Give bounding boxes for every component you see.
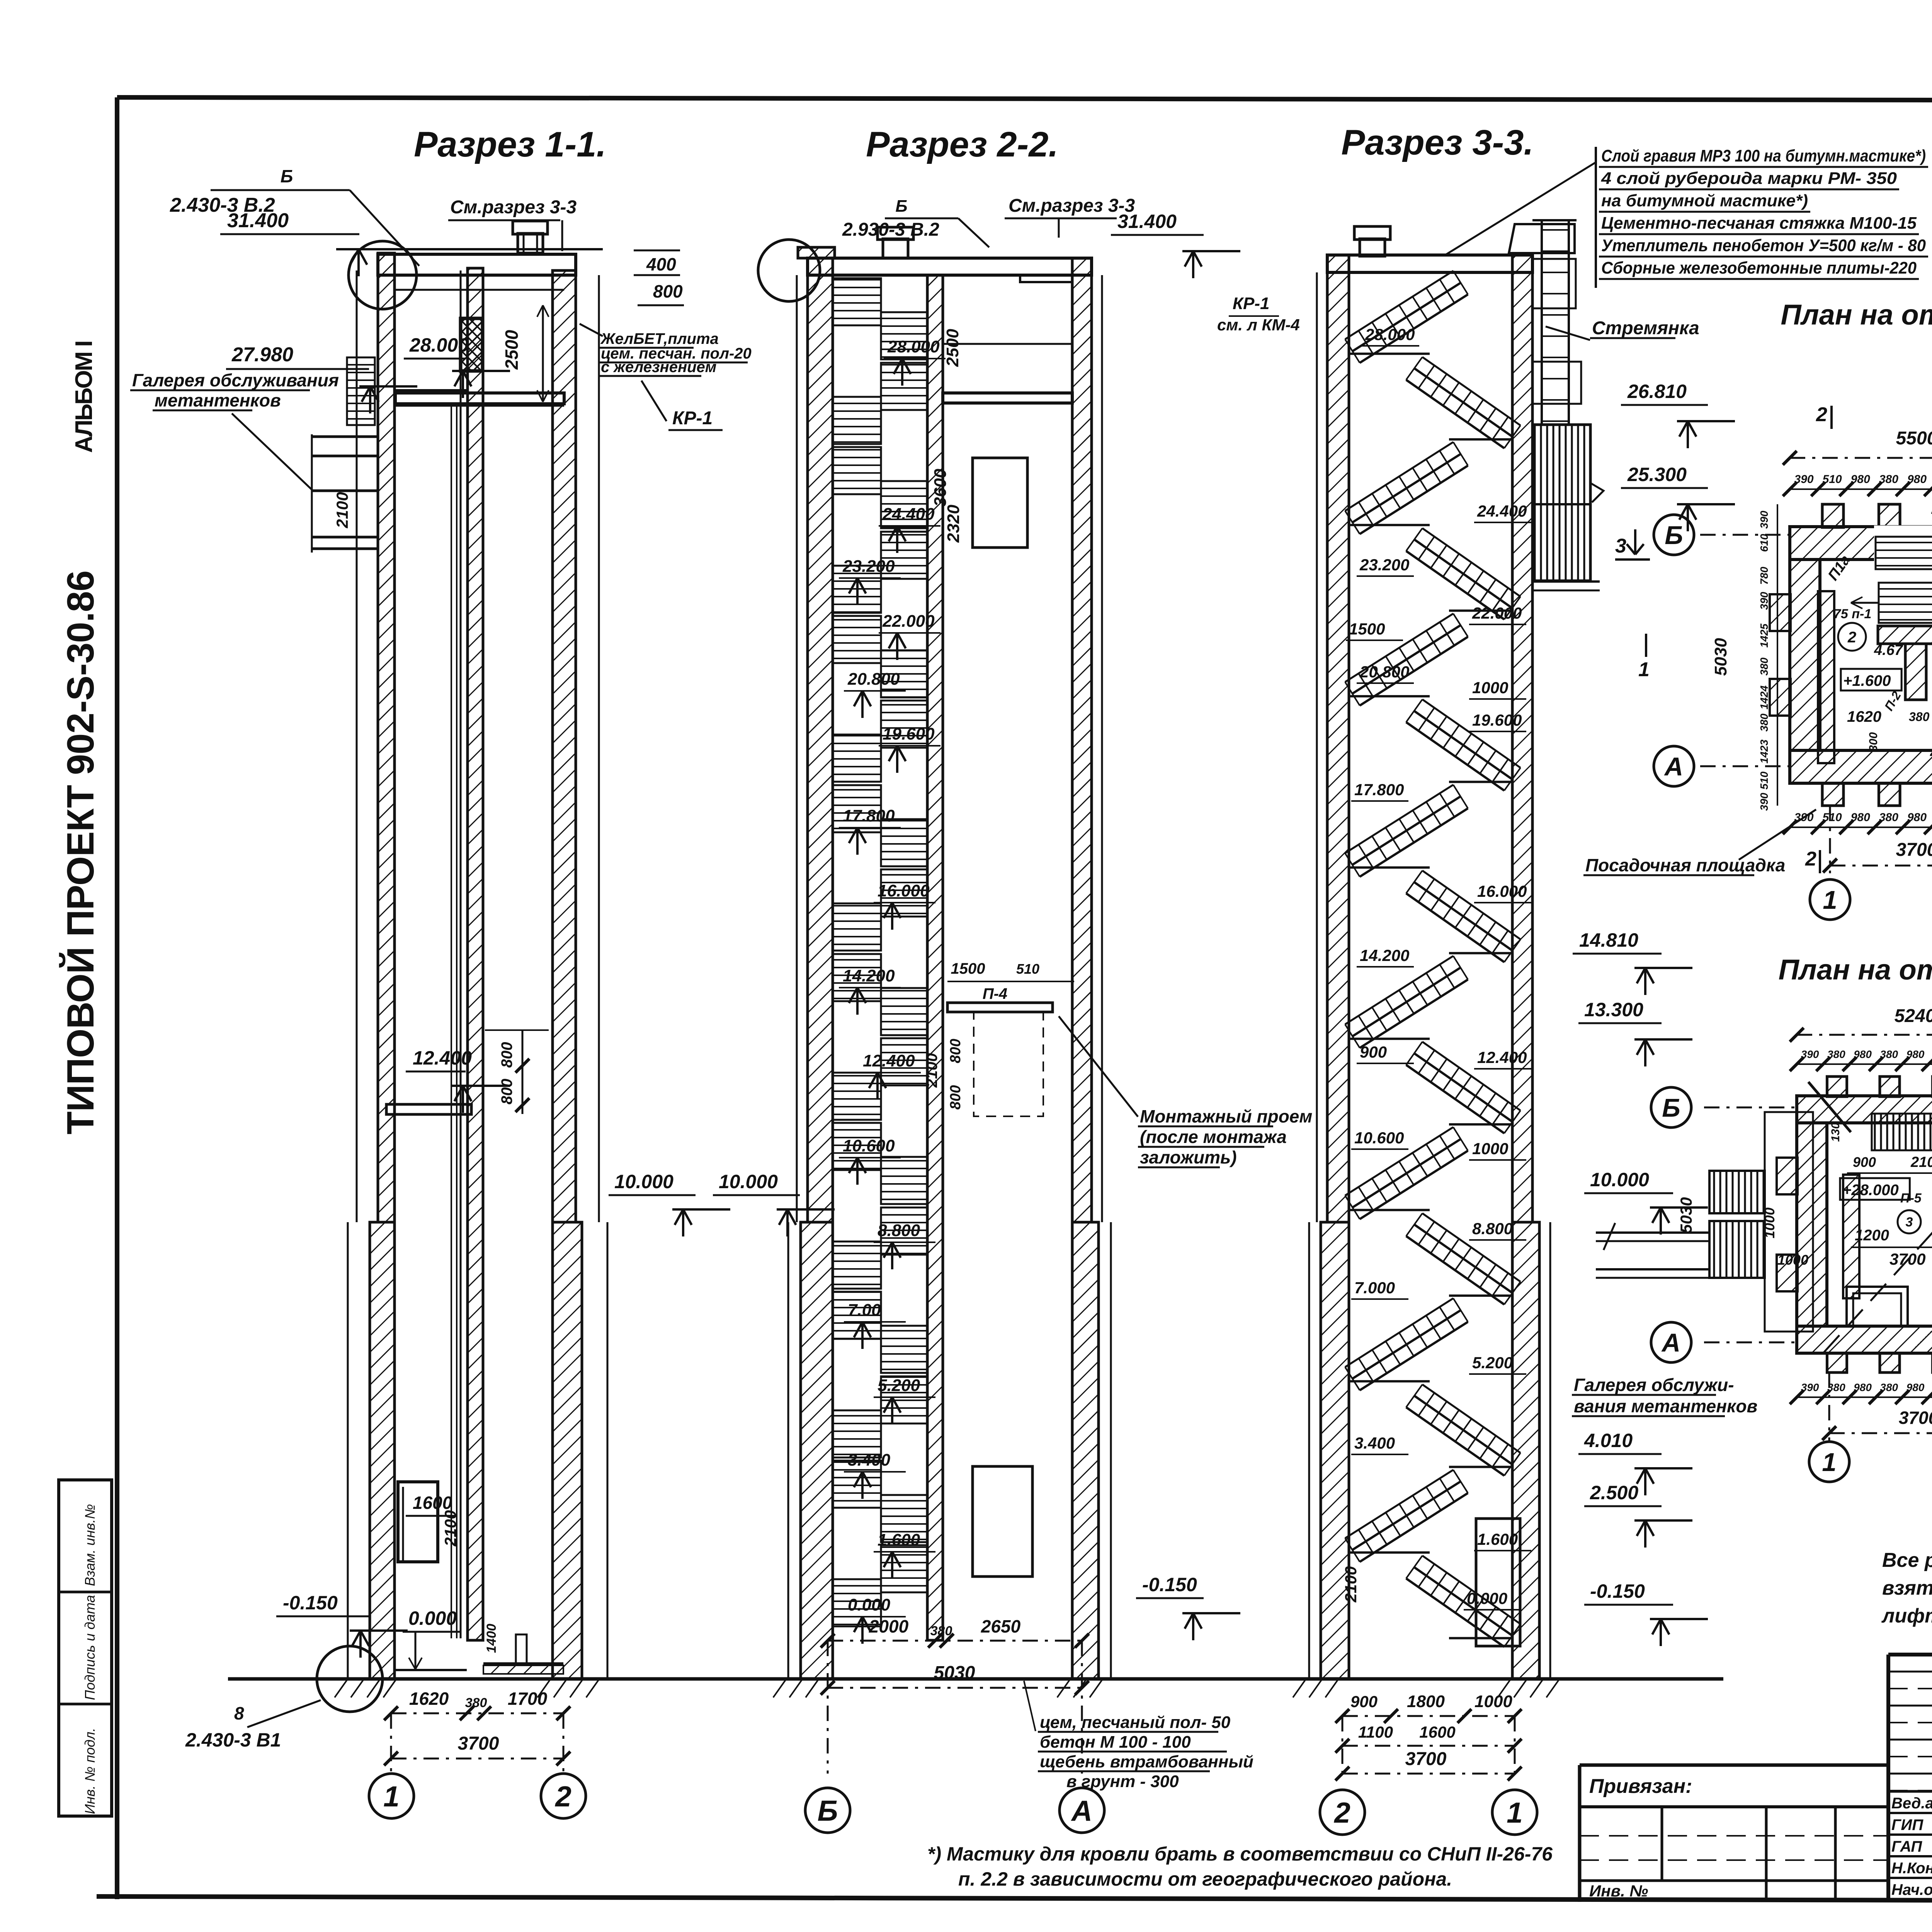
- svg-text:2100: 2100: [1342, 1566, 1360, 1602]
- svg-text:ГИП: ГИП: [1891, 1816, 1923, 1833]
- svg-text:-0.150: -0.150: [283, 1592, 338, 1614]
- svg-text:А: А: [1661, 1328, 1680, 1357]
- svg-text:-0.150: -0.150: [1590, 1580, 1645, 1602]
- svg-text:0.000: 0.000: [848, 1595, 891, 1614]
- svg-text:4 слой рубероида марки РМ- 350: 4 слой рубероида марки РМ- 350: [1601, 169, 1897, 188]
- svg-text:2650: 2650: [981, 1616, 1021, 1636]
- svg-text:см. л КМ-4: см. л КМ-4: [1217, 316, 1300, 334]
- svg-text:Б: Б: [281, 166, 293, 186]
- svg-text:20.800: 20.800: [847, 670, 900, 689]
- svg-text:3700: 3700: [1896, 840, 1932, 860]
- svg-text:8.800: 8.800: [1472, 1219, 1513, 1238]
- svg-text:3.400: 3.400: [848, 1451, 891, 1469]
- svg-text:1500: 1500: [1349, 620, 1385, 638]
- svg-text:1500: 1500: [951, 960, 985, 977]
- svg-text:5030: 5030: [1677, 1197, 1695, 1233]
- svg-text:5.200: 5.200: [1472, 1354, 1513, 1372]
- svg-text:800: 800: [653, 281, 683, 301]
- svg-text:1000: 1000: [1472, 679, 1508, 697]
- svg-text:16.000: 16.000: [1477, 882, 1527, 900]
- svg-text:23.200: 23.200: [1359, 556, 1409, 574]
- svg-text:щебень втрамбованный: щебень втрамбованный: [1040, 1752, 1253, 1771]
- svg-text:10.600: 10.600: [1354, 1129, 1404, 1147]
- svg-text:19.600: 19.600: [1472, 711, 1522, 729]
- svg-text:4.67: 4.67: [1874, 642, 1903, 658]
- svg-text:Утеплитель пенобетон У=500 кг/: Утеплитель пенобетон У=500 кг/м - 80: [1601, 236, 1926, 255]
- svg-text:Б: Б: [1665, 521, 1683, 550]
- svg-text:АЛЬБОМ I: АЛЬБОМ I: [71, 342, 97, 453]
- svg-text:в грунт - 300: в грунт - 300: [1066, 1772, 1179, 1791]
- svg-text:75 п-1: 75 п-1: [1833, 607, 1871, 621]
- svg-text:7.00: 7.00: [848, 1301, 881, 1320]
- svg-text:взяты по альбому заданий на пр: взяты по альбому заданий на проектирован…: [1882, 1577, 1932, 1599]
- svg-text:1000: 1000: [1475, 1692, 1512, 1711]
- svg-text:заложить): заложить): [1140, 1147, 1237, 1167]
- svg-text:10.000: 10.000: [719, 1171, 778, 1192]
- svg-text:380: 380: [1909, 710, 1930, 724]
- svg-text:5.200: 5.200: [878, 1376, 920, 1395]
- svg-text:22.000: 22.000: [1472, 604, 1522, 622]
- svg-text:2: 2: [554, 1780, 571, 1813]
- svg-text:А: А: [1664, 752, 1683, 781]
- svg-text:2.500: 2.500: [1590, 1482, 1638, 1503]
- svg-text:1800: 1800: [1407, 1692, 1445, 1711]
- svg-text:31.400: 31.400: [1117, 211, 1177, 232]
- svg-text:1600: 1600: [1419, 1723, 1455, 1741]
- svg-text:390: 390: [1758, 592, 1770, 610]
- svg-text:2100: 2100: [1910, 1154, 1932, 1170]
- svg-text:510: 510: [1016, 961, 1039, 977]
- svg-text:24.400: 24.400: [882, 505, 935, 524]
- svg-text:2100: 2100: [923, 1053, 940, 1088]
- svg-text:Б: Б: [895, 197, 907, 216]
- svg-text:20.800: 20.800: [1359, 663, 1409, 681]
- svg-text:2: 2: [1816, 403, 1827, 426]
- svg-text:2500: 2500: [502, 330, 522, 370]
- svg-text:Подпись и дата: Подпись и дата: [82, 1595, 98, 1700]
- svg-text:Сборные железобетонные плиты-2: Сборные железобетонные плиты-220: [1601, 259, 1917, 277]
- svg-text:Разрез 1-1.: Разрез 1-1.: [414, 125, 606, 164]
- svg-text:2: 2: [1805, 848, 1816, 870]
- svg-text:2000: 2000: [1930, 552, 1932, 585]
- svg-text:1425: 1425: [1758, 623, 1770, 648]
- svg-text:на битумной мастике*): на битумной мастике*): [1601, 191, 1808, 210]
- svg-text:2100: 2100: [441, 1510, 459, 1546]
- svg-text:Стремянка: Стремянка: [1592, 318, 1699, 338]
- svg-text:10.000: 10.000: [614, 1171, 673, 1192]
- svg-text:1100: 1100: [1358, 1723, 1393, 1741]
- svg-text:с железнением: с железнением: [601, 359, 716, 376]
- svg-text:2320: 2320: [944, 505, 963, 543]
- svg-text:800: 800: [498, 1042, 515, 1068]
- svg-text:800: 800: [498, 1079, 515, 1105]
- svg-text:Вед.арх.: Вед.арх.: [1891, 1795, 1932, 1812]
- svg-text:1: 1: [1638, 658, 1650, 681]
- svg-text:Монтажный проем: Монтажный проем: [1140, 1106, 1312, 1126]
- svg-text:8: 8: [234, 1703, 244, 1723]
- svg-text:2: 2: [1333, 1796, 1350, 1829]
- svg-text:3: 3: [1615, 535, 1626, 557]
- svg-text:380: 380: [1758, 713, 1770, 731]
- svg-text:380: 380: [465, 1696, 487, 1710]
- svg-text:Нач.отд.: Нач.отд.: [1891, 1881, 1932, 1898]
- svg-text:2.930-3 В.2: 2.930-3 В.2: [842, 219, 939, 240]
- svg-text:10.600: 10.600: [843, 1136, 895, 1155]
- svg-text:1000: 1000: [1762, 1207, 1777, 1238]
- svg-text:(после монтажа: (после монтажа: [1140, 1127, 1287, 1147]
- svg-text:510: 510: [1758, 771, 1770, 789]
- svg-text:3700: 3700: [1899, 1408, 1932, 1428]
- svg-text:0.000: 0.000: [1467, 1589, 1507, 1607]
- svg-text:28.000: 28.000: [1365, 325, 1415, 344]
- svg-text:10.000: 10.000: [1590, 1169, 1649, 1190]
- svg-text:Все размеры и габариты шахты л: Все размеры и габариты шахты лифта и маш…: [1882, 1549, 1932, 1571]
- svg-text:*) Мастику для кровли брать в: *) Мастику для кровли брать в соответств…: [927, 1843, 1553, 1865]
- svg-text:2: 2: [1847, 629, 1856, 646]
- svg-text:13.300: 13.300: [1584, 999, 1643, 1020]
- svg-text:19.600: 19.600: [883, 724, 935, 743]
- svg-text:п. 2.2 в зависимости от геогра: п. 2.2 в зависимости от географического …: [958, 1868, 1452, 1890]
- svg-text:5240: 5240: [1895, 1006, 1932, 1026]
- svg-text:28.000: 28.000: [409, 334, 469, 356]
- svg-text:390: 390: [1758, 793, 1770, 811]
- svg-text:-0.150: -0.150: [1142, 1574, 1197, 1595]
- svg-text:Разрез 3-3.: Разрез 3-3.: [1341, 123, 1534, 162]
- svg-text:1.600: 1.600: [1477, 1530, 1518, 1548]
- svg-text:14.810: 14.810: [1579, 929, 1638, 951]
- svg-text:610: 610: [1758, 534, 1770, 552]
- svg-text:1000: 1000: [1472, 1139, 1508, 1158]
- svg-text:1600: 1600: [413, 1493, 452, 1513]
- svg-text:Галерея обслужи-: Галерея обслужи-: [1574, 1375, 1734, 1395]
- svg-text:1423: 1423: [1758, 739, 1770, 764]
- svg-text:Б: Б: [1662, 1094, 1680, 1122]
- svg-text:3700: 3700: [458, 1733, 499, 1754]
- svg-text:390: 390: [1758, 510, 1770, 529]
- svg-text:1.600: 1.600: [878, 1531, 920, 1549]
- svg-text:П-4: П-4: [983, 985, 1007, 1002]
- svg-text:24.400: 24.400: [1477, 502, 1527, 520]
- svg-text:лифтовых установок АТ– 6.00–: лифтовых установок АТ– 6.00– 001 . Разде…: [1881, 1605, 1932, 1627]
- svg-text:См.разрез 3-3: См.разрез 3-3: [1009, 196, 1135, 216]
- svg-text:Слой гравия МР3 100 на битумн.: Слой гравия МР3 100 на битумн.мастике*): [1601, 146, 1926, 165]
- svg-text:Посадочная площадка: Посадочная площадка: [1585, 855, 1785, 875]
- svg-text:1700: 1700: [508, 1689, 548, 1709]
- svg-text:1: 1: [1823, 886, 1837, 915]
- svg-text:25.300: 25.300: [1627, 464, 1687, 485]
- svg-text:3.400: 3.400: [1354, 1434, 1395, 1452]
- svg-text:метантенков: метантенков: [155, 390, 281, 410]
- svg-text:5030: 5030: [934, 1663, 975, 1683]
- svg-text:380: 380: [1758, 657, 1770, 675]
- svg-text:900: 900: [1360, 1043, 1387, 1061]
- svg-text:Галерея обслуживания: Галерея обслуживания: [132, 370, 339, 390]
- svg-text:КР-1: КР-1: [672, 408, 713, 429]
- svg-text:ТИПОВОЙ ПРОЕКТ 902-S-30.86: ТИПОВОЙ ПРОЕКТ 902-S-30.86: [59, 570, 102, 1134]
- svg-text:ГАП: ГАП: [1891, 1838, 1922, 1855]
- svg-text:17.800: 17.800: [843, 806, 895, 825]
- svg-text:2000: 2000: [869, 1616, 909, 1636]
- svg-text:П-5: П-5: [1900, 1191, 1922, 1206]
- svg-text:23.200: 23.200: [842, 557, 895, 576]
- svg-text:800: 800: [947, 1085, 964, 1109]
- svg-text:См.разрез 3-3: См.разрез 3-3: [450, 197, 577, 218]
- svg-text:4.5: 4.5: [1930, 745, 1932, 762]
- svg-text:вания метантенков: вания метантенков: [1574, 1396, 1757, 1416]
- svg-text:28.000: 28.000: [887, 337, 940, 356]
- svg-text:12.400: 12.400: [1477, 1048, 1527, 1066]
- svg-text:План на отм. 28.000.: План на отм. 28.000.: [1779, 954, 1932, 986]
- svg-text:Привязан:: Привязан:: [1589, 1775, 1692, 1798]
- svg-text:22.000: 22.000: [882, 612, 935, 631]
- svg-text:2100: 2100: [333, 492, 351, 528]
- svg-text:400: 400: [646, 254, 676, 274]
- svg-text:12.400: 12.400: [413, 1047, 472, 1069]
- svg-text:Разрез 2-2.: Разрез 2-2.: [866, 125, 1058, 164]
- svg-text:1000: 1000: [1777, 1252, 1808, 1268]
- svg-text:бетон М 100 - 100: бетон М 100 - 100: [1040, 1733, 1191, 1752]
- svg-text:14.200: 14.200: [1360, 946, 1409, 964]
- svg-text:27.980: 27.980: [231, 344, 293, 366]
- svg-text:Инв. № подл.: Инв. № подл.: [82, 1728, 98, 1814]
- svg-text:1400: 1400: [484, 1624, 499, 1653]
- svg-text:380: 380: [930, 1624, 952, 1638]
- svg-text:2.430-3 В1: 2.430-3 В1: [185, 1729, 281, 1751]
- svg-text:1: 1: [1822, 1448, 1836, 1477]
- svg-text:Б: Б: [817, 1794, 838, 1827]
- svg-text:3700: 3700: [1405, 1749, 1447, 1769]
- svg-text:14.200: 14.200: [843, 966, 895, 985]
- svg-text:Н.Контр.: Н.Контр.: [1891, 1860, 1932, 1877]
- svg-text:План на отм. 0.000: План на отм. 0.000: [1781, 299, 1932, 331]
- svg-text:130: 130: [1829, 1122, 1842, 1142]
- svg-text:КР-1: КР-1: [1233, 294, 1270, 313]
- svg-text:0.000: 0.000: [408, 1607, 457, 1629]
- svg-text:26.810: 26.810: [1627, 381, 1687, 402]
- svg-text:31.400: 31.400: [227, 209, 289, 232]
- svg-text:1620: 1620: [1847, 708, 1881, 725]
- svg-text:цем, песчаный пол- 50: цем, песчаный пол- 50: [1040, 1713, 1231, 1732]
- svg-text:7.000: 7.000: [1354, 1279, 1395, 1297]
- svg-text:А: А: [1071, 1794, 1092, 1827]
- svg-text:5030: 5030: [1711, 638, 1730, 676]
- svg-text:3: 3: [1906, 1215, 1913, 1230]
- svg-text:+1.600: +1.600: [1843, 672, 1891, 689]
- svg-text:+28.000: +28.000: [1842, 1182, 1899, 1199]
- svg-text:Цементно-песчаная стяжка М100-: Цементно-песчаная стяжка М100-15: [1601, 214, 1917, 233]
- svg-text:900: 900: [1350, 1692, 1378, 1711]
- svg-text:300: 300: [1867, 732, 1880, 752]
- svg-text:17.800: 17.800: [1354, 781, 1404, 799]
- svg-text:800: 800: [947, 1039, 964, 1063]
- svg-text:3600: 3600: [931, 469, 950, 507]
- svg-text:2500: 2500: [943, 329, 962, 367]
- svg-text:4.010: 4.010: [1584, 1430, 1633, 1451]
- svg-text:1: 1: [383, 1780, 400, 1813]
- svg-text:5500: 5500: [1896, 428, 1932, 449]
- svg-text:1200: 1200: [1855, 1227, 1889, 1244]
- svg-text:1620: 1620: [409, 1689, 449, 1709]
- svg-text:Инв. №: Инв. №: [1589, 1882, 1648, 1900]
- svg-text:Взам. инв.№: Взам. инв.№: [82, 1504, 98, 1586]
- svg-text:780: 780: [1758, 566, 1770, 585]
- svg-text:8.800: 8.800: [878, 1221, 920, 1240]
- svg-text:12.400: 12.400: [863, 1051, 915, 1070]
- svg-text:1: 1: [1507, 1796, 1523, 1829]
- svg-text:1424: 1424: [1758, 685, 1770, 709]
- svg-text:900: 900: [1853, 1154, 1876, 1170]
- svg-text:16.000: 16.000: [878, 881, 930, 900]
